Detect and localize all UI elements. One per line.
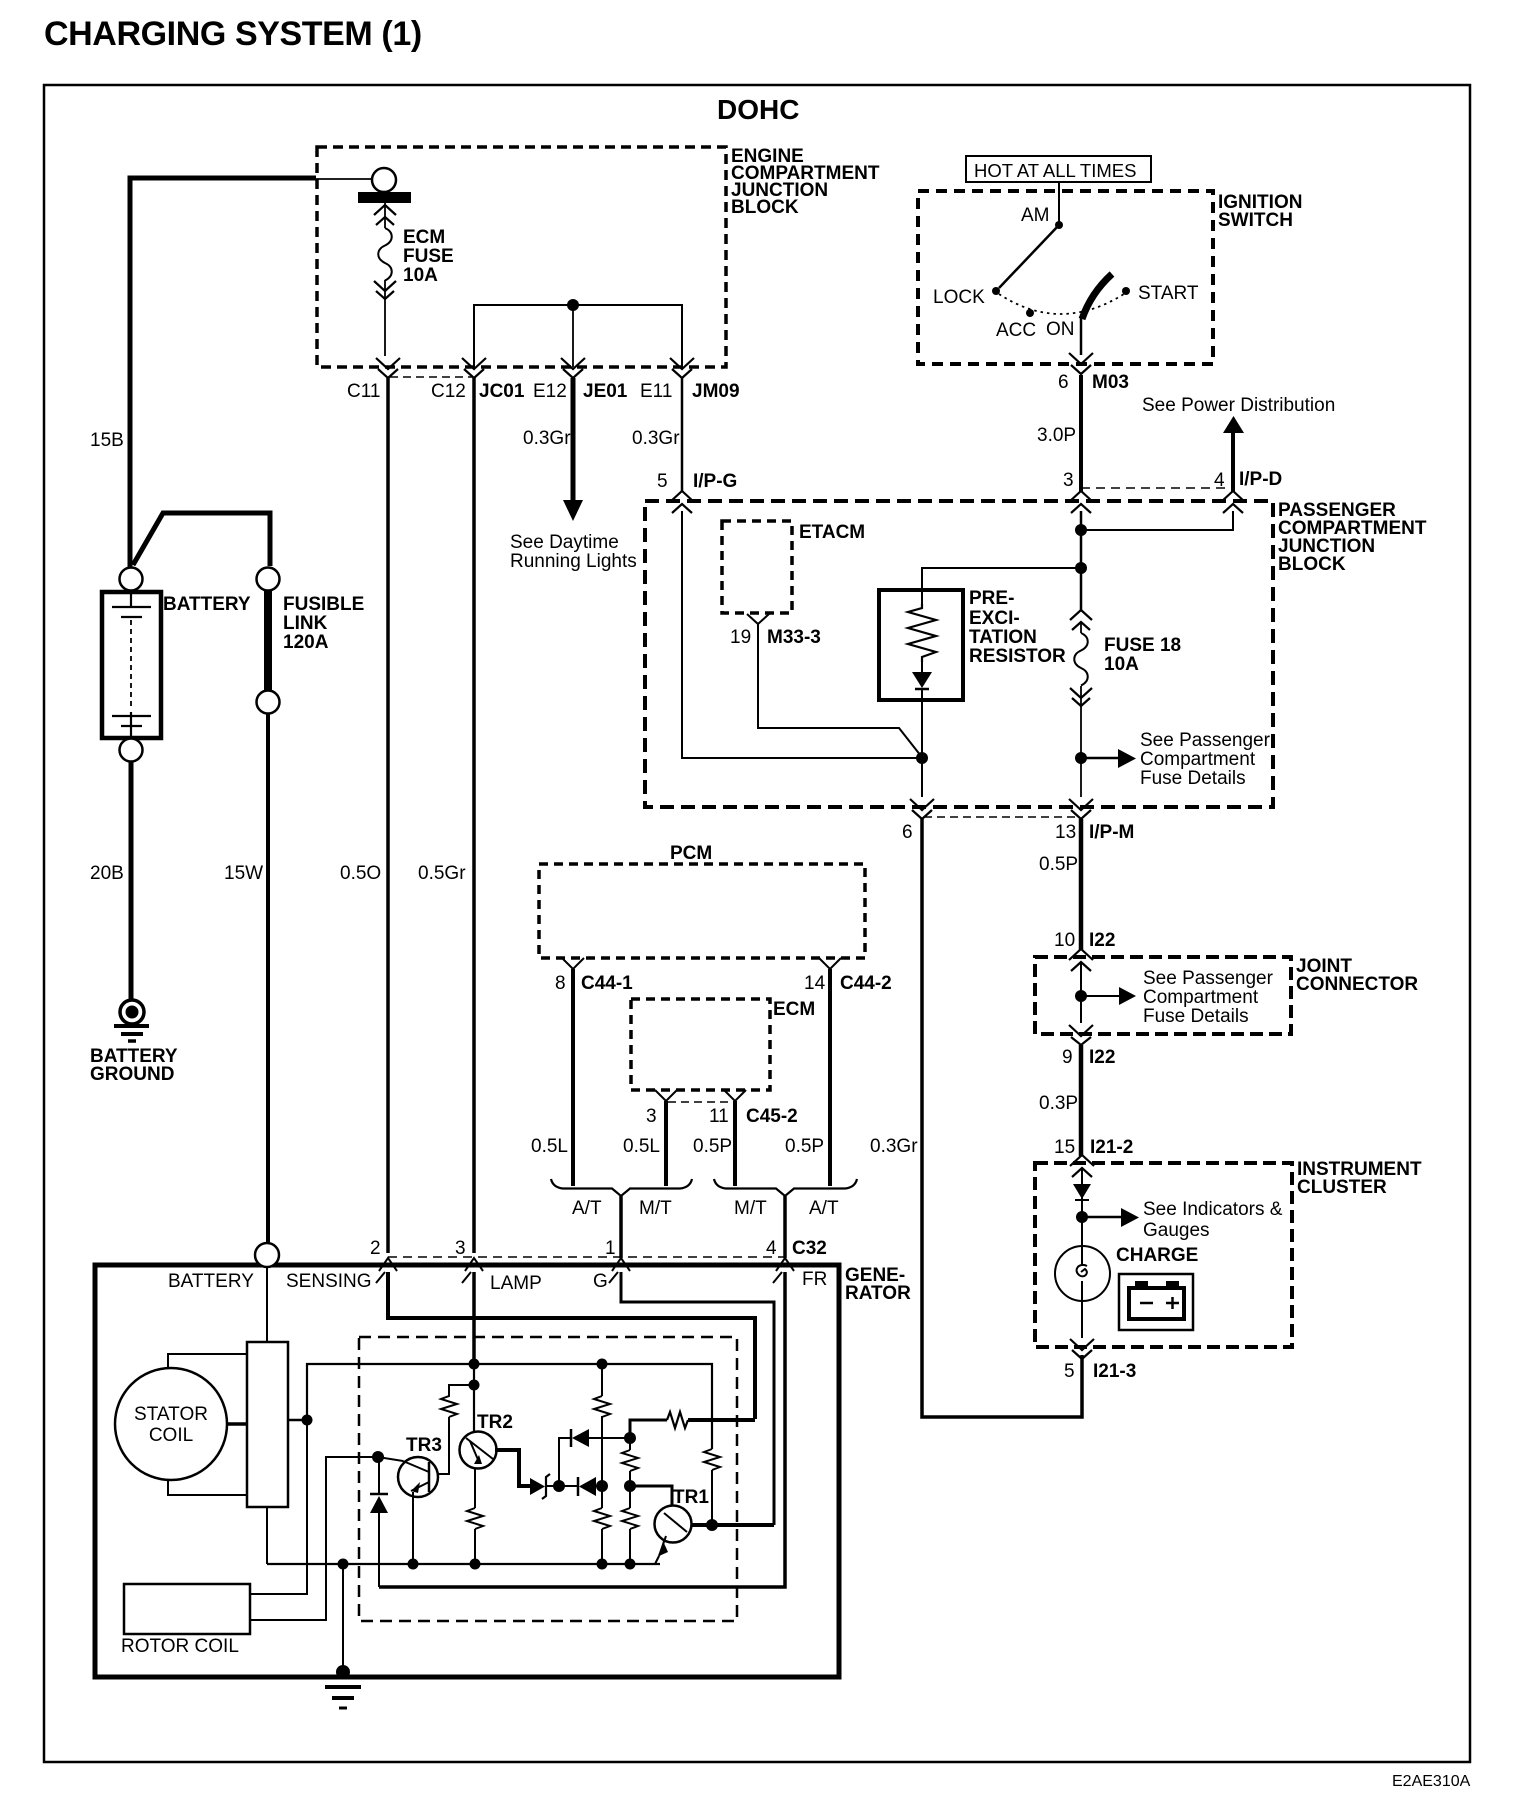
arrow see power distribution [1223,416,1244,433]
connector C12 (chevron down) [462,358,486,378]
svg-text:15B: 15B [90,430,124,451]
svg-text:0.3P: 0.3P [1039,1093,1078,1114]
key position arc (thick) [1082,274,1112,319]
wire rotor top feed [251,1420,307,1594]
resistor zigzag [908,604,936,662]
svg-text:0.5P: 0.5P [1039,854,1078,875]
label PRE-EXCI-TATION RESISTOR [969,588,1066,667]
connector 8 C44-1 (chevron) [562,958,584,969]
label GENE-RATOR [845,1265,911,1304]
zener diode [530,1478,545,1495]
rectifier block [247,1342,288,1507]
wire TR3 emitter [412,1492,414,1564]
junction node lamp/bus [469,1359,480,1370]
svg-text:E2AE310A: E2AE310A [1392,1773,1471,1790]
wire 0.5P (C45-2) [733,1101,737,1186]
switch wiper AM-LOCK [999,225,1059,288]
svg-text:I21-3: I21-3 [1093,1361,1136,1382]
wire FR route [379,1272,785,1587]
svg-text:AM: AM [1021,205,1050,226]
svg-text:0.3Gr: 0.3Gr [523,428,571,449]
svg-text:PRE-: PRE- [969,588,1014,609]
svg-text:FUSE 18: FUSE 18 [1104,635,1181,656]
battery B1 [102,592,161,738]
connector 10 I22 (chevron up) [1069,949,1093,971]
svg-text:DOHC: DOHC [717,94,799,125]
junction node [916,752,928,764]
label INSTRUMENT CLUSTER [1297,1159,1422,1198]
wire LAMP down [472,1272,476,1364]
svg-text:ETACM: ETACM [799,522,865,543]
svg-text:10A: 10A [403,265,438,286]
svg-text:ROTOR COIL: ROTOR COIL [121,1636,239,1657]
wire TR3 collector node [378,1457,403,1461]
connector pair dashed link C11-C12 [390,376,472,378]
node AM [1055,221,1063,229]
wire TR1 output [691,1523,774,1527]
svg-text:ACC: ACC [996,320,1036,341]
svg-text:FUSIBLE: FUSIBLE [283,594,364,615]
svg-text:I22: I22 [1089,930,1115,951]
junction node [1076,1211,1088,1223]
engine compartment junction block (dashed box) [317,147,726,367]
svg-text:I21-2: I21-2 [1090,1137,1133,1158]
svg-text:Gauges: Gauges [1143,1220,1210,1241]
ECM fuse terminal circle [372,168,396,192]
svg-text:See Passenger: See Passenger [1140,730,1271,751]
wire JE01 stub [572,305,574,367]
label See Daytime Running Lights [510,532,637,572]
svg-text:11: 11 [709,1106,729,1127]
generator battery terminal circle [255,1243,279,1267]
svg-text:COIL: COIL [149,1425,193,1446]
connector JM09 (chevron down) [670,358,694,378]
junction node [302,1415,313,1426]
svg-text:See Passenger: See Passenger [1143,968,1274,989]
fuse FUSE 18 10A [1070,610,1092,630]
svg-text:ECM: ECM [403,227,445,248]
svg-text:13: 13 [1055,822,1076,843]
connector 4 I/P-D (chevron up) [1221,491,1245,513]
svg-text:C45-2: C45-2 [746,1106,798,1127]
junction node [597,1559,608,1570]
svg-text:PCM: PCM [670,843,712,864]
svg-text:I/P-D: I/P-D [1239,469,1282,490]
connector 11 C45-2 (chevron) [724,1090,746,1101]
wire G merged [619,1196,623,1258]
svg-text:JM09: JM09 [692,381,740,402]
svg-text:SWITCH: SWITCH [1218,210,1293,231]
transistor TR3 [398,1457,438,1497]
svg-text:9: 9 [1062,1047,1073,1068]
wire FR merged [783,1196,787,1258]
wire to TR3 base [437,1417,449,1474]
connector 5 I21-3 (chevron down) [1070,1339,1094,1359]
wire 15W [266,713,270,1243]
svg-text:A/T: A/T [809,1198,839,1219]
junction dot [567,299,579,311]
node ACC [1026,309,1034,317]
wire inside joint connector [1080,962,1082,1023]
svg-text:C11: C11 [347,381,380,402]
svg-text:STATOR: STATOR [134,1404,208,1425]
svg-text:CHARGING SYSTEM (1): CHARGING SYSTEM (1) [44,15,422,53]
wire rectifier to ground bus [266,1507,268,1564]
svg-text:15W: 15W [224,863,263,884]
ground bus [267,1563,660,1565]
junction node [1075,752,1087,764]
svg-text:19: 19 [730,627,751,648]
svg-text:120A: 120A [283,632,329,653]
connector 14 C44-2 (chevron) [819,958,841,969]
svg-text:GROUND: GROUND [90,1064,174,1085]
dotted travel arc [999,294,1124,314]
svg-text:3: 3 [646,1106,657,1127]
svg-text:0.5P: 0.5P [785,1136,824,1157]
passenger compartment junction block (dashed box) [645,501,1273,807]
wire G route [621,1272,774,1525]
sensing resistor (horizontal) [630,1420,667,1438]
wire AM feed [1058,182,1060,224]
arrow see indicators and gauges [1082,1216,1121,1219]
fusible link bottom circle [257,691,280,714]
label PASSENGER COMPARTMENT JUNCTION BLOCK [1278,500,1427,575]
pre-excitation resistor box [879,590,963,700]
svg-text:3.0P: 3.0P [1037,425,1076,446]
svg-text:C44-2: C44-2 [840,973,892,994]
junction node bus/divider [597,1359,608,1370]
connector row dashed link C32 [388,1256,785,1258]
svg-text:FUSE: FUSE [403,246,454,267]
ECM box (dashed) [631,999,770,1090]
svg-text:Fuse Details: Fuse Details [1143,1006,1249,1027]
svg-text:0.5L: 0.5L [531,1136,568,1157]
svg-text:0.5O: 0.5O [340,863,381,884]
battery top terminal circle [120,568,143,591]
generator box [95,1265,839,1677]
diode (down) inside resistor box [912,672,932,688]
transistor TR2 [460,1432,497,1469]
fusible link F1 120A (thick bar) [264,590,272,690]
terminal labels [168,1269,827,1294]
connector 3 (chevron) [655,1090,677,1101]
svg-text:TR3: TR3 [406,1435,442,1456]
ignition switch box (dashed) [918,191,1213,364]
diode (down) in cluster [1073,1184,1091,1199]
junction node ground [338,1559,349,1570]
svg-text:0.5L: 0.5L [623,1136,660,1157]
svg-text:8: 8 [555,973,566,994]
wire ON to M03 [1080,317,1083,355]
svg-text:0.3Gr: 0.3Gr [632,428,680,449]
wire into cluster [1081,1168,1083,1246]
svg-text:LAMP: LAMP [490,1273,542,1294]
svg-text:CLUSTER: CLUSTER [1297,1177,1387,1198]
svg-text:See Daytime: See Daytime [510,532,619,553]
junction node [469,1380,480,1391]
svg-text:10A: 10A [1104,654,1139,675]
svg-text:I/P-G: I/P-G [693,471,737,492]
PCM box (dashed) [539,864,865,958]
connector 4 (chevron up) [773,1258,794,1283]
svg-text:ECM: ECM [773,999,815,1020]
wire 0.3P [1079,1045,1084,1156]
junction node [625,1559,636,1570]
arrow see daytime running lights [563,500,583,521]
transistor TR1 [655,1506,692,1543]
connector 1 (chevron up) [609,1258,630,1283]
connector 3 (chevron up) [1069,491,1093,513]
junction node [470,1559,481,1570]
labels A/T M/T [572,1198,839,1219]
svg-text:JC01: JC01 [479,381,525,402]
label JOINT CONNECTOR [1296,956,1418,995]
label ECM FUSE 10A [403,227,454,286]
svg-text:See Power Distribution: See Power Distribution [1142,395,1335,416]
junction node TR3/rotor [372,1451,384,1463]
svg-text:E11: E11 [640,381,672,402]
diode field discharge [370,1493,388,1496]
svg-text:Compartment: Compartment [1143,987,1259,1008]
divider chain x630 [629,1438,631,1564]
wire SENSING route [388,1272,755,1419]
svg-text:M/T: M/T [639,1198,672,1219]
wire battery to fusible link jog [133,513,270,566]
stator winding leads [168,1354,247,1368]
wire 0.5L (ECM 3) [664,1101,668,1186]
wire resistor to node [921,700,923,797]
svg-text:M/T: M/T [734,1198,767,1219]
wire 20B [129,762,134,1000]
svg-text:E12: E12 [533,381,567,402]
svg-text:C44-1: C44-1 [581,973,633,994]
svg-text:Compartment: Compartment [1140,749,1256,770]
battery pictogram [1119,1274,1193,1330]
wire 0.5Gr (C12 down to generator 3) [472,378,476,1253]
svg-text:1: 1 [605,1238,616,1259]
svg-text:I/P-M: I/P-M [1089,822,1134,843]
diode (left) upper [570,1429,573,1447]
wire TR1 base [630,1486,672,1506]
connector M03 (chevron down) [1069,353,1093,374]
wire battery terminal into rectifier [266,1267,268,1342]
connector C11 (chevron down) [376,358,400,378]
connector 19 M33-3 (chevron) [747,614,769,624]
fusible link top circle [257,568,280,591]
wire M03 main down [1080,511,1083,610]
svg-text:Running Lights: Running Lights [510,551,637,572]
lamp CHARGE indicator [1055,1246,1110,1301]
wire to ECM fuse terminal [316,178,372,180]
svg-text:M33-3: M33-3 [767,627,821,648]
svg-text:15: 15 [1054,1137,1075,1158]
ECM fuse holder bar [358,192,411,203]
feedback resistor x712 [704,1449,720,1470]
svg-text:10: 10 [1054,930,1075,951]
svg-text:HOT AT ALL TIMES: HOT AT ALL TIMES [974,160,1136,181]
svg-text:RATOR: RATOR [845,1283,911,1304]
stator coil circle [115,1368,227,1480]
junction node [624,1480,636,1492]
connector 6 (chevron down) [910,799,934,819]
wire I/P-D branch [1081,511,1233,530]
svg-text:FR: FR [802,1269,827,1290]
wire 0.5L (C44-1) [571,969,575,1186]
connector 2 (chevron up) [376,1258,397,1283]
label IGNITION SWITCH [1218,192,1302,231]
connector pair dashed link 3-11 [668,1101,733,1103]
label FUSE 18 10A [1104,635,1181,675]
connector 9 I22 (chevron down) [1069,1025,1093,1045]
wire 0.5O (C11 down to generator 2) [386,378,390,1253]
junction node [553,1480,565,1492]
divider chain x602 [601,1364,603,1564]
wire JM09 down to I/P-G [681,378,684,492]
svg-text:2: 2 [370,1238,381,1259]
junction node [1075,990,1087,1002]
svg-text:C12: C12 [431,381,466,402]
svg-text:Fuse Details: Fuse Details [1140,768,1246,789]
svg-text:I22: I22 [1089,1047,1115,1068]
wire rectifier output [288,1419,307,1422]
svg-text:4: 4 [1214,470,1225,491]
node LOCK [992,287,1000,295]
svg-text:20B: 20B [90,863,124,884]
wire M33-3 to node [758,624,921,756]
wire to pre-excitation resistor [922,568,1081,604]
bus inside junction block [474,305,682,367]
svg-text:0.5Gr: 0.5Gr [418,863,466,884]
svg-text:6: 6 [1058,372,1069,393]
svg-text:M03: M03 [1092,372,1129,393]
wire TR2 output to zener [495,1450,530,1486]
arrow see passenger compartment fuse details [1081,757,1118,760]
connector 3 (chevron up) [462,1258,483,1283]
svg-text:TR1: TR1 [673,1487,709,1508]
wire to case ground [342,1564,344,1671]
connector 13 I/P-M (chevron down) [1069,799,1093,819]
wire rectifier output to regulator bus [307,1364,712,1449]
wire 0.5P [1079,819,1084,950]
junction node [1075,524,1087,536]
voltage regulator box (dashed) [359,1337,737,1621]
wire lamp branch [473,1364,475,1385]
svg-text:START: START [1138,283,1199,304]
svg-text:SENSING: SENSING [286,1271,372,1292]
wire node up [559,1438,571,1486]
svg-text:RESISTOR: RESISTOR [969,646,1066,667]
svg-text:C32: C32 [792,1238,827,1259]
connector 15 I21-2 (chevron up) [1070,1155,1094,1177]
label ENGINE COMPARTMENT JUNCTION BLOCK [731,146,880,218]
svg-text:4: 4 [766,1238,777,1259]
wire JE01 0.3Gr down [571,378,576,500]
connector labels row [347,381,740,402]
svg-text:CHARGE: CHARGE [1116,1245,1198,1266]
junction node [596,1480,608,1492]
wire 0.5P (C44-2) [828,969,832,1186]
ETACM box (dashed) [722,521,792,613]
svg-text:JE01: JE01 [583,381,628,402]
wire 15B battery feed (thick) [130,178,316,567]
connector pair dashed link 6-13 [924,816,1079,818]
junction node [706,1519,718,1531]
connector row dashed link 3 - 4 [1081,487,1233,489]
svg-text:BATTERY: BATTERY [163,594,251,615]
battery ground symbol [120,1000,144,1024]
svg-text:TATION: TATION [969,627,1037,648]
fuse ECM FUSE 10A [374,205,396,225]
svg-text:LOCK: LOCK [933,287,985,308]
svg-text:EXCI-: EXCI- [969,608,1020,629]
instrument cluster box (dashed) [1035,1163,1292,1347]
rotor coil box [124,1584,250,1634]
svg-text:5: 5 [657,471,668,492]
HOT AT ALL TIMES box [966,156,1151,182]
svg-text:ON: ON [1046,319,1075,340]
arrow see passenger compartment fuse details [1081,995,1119,997]
wire rotor bottom return [250,1457,378,1620]
svg-text:6: 6 [902,822,913,843]
node START [1122,287,1130,295]
svg-text:See Indicators &: See Indicators & [1143,1199,1283,1220]
connector JE01 (chevron down) [561,358,585,378]
junction node [624,1432,636,1444]
wire 0.3Gr long route (6 to instrument cluster 5) [922,819,1082,1417]
junction node [1075,562,1087,574]
merge bracket M/T-A/T (right) [714,1179,857,1196]
svg-text:G: G [593,1271,608,1292]
svg-text:BLOCK: BLOCK [731,197,799,218]
svg-text:A/T: A/T [572,1198,602,1219]
svg-text:0.5P: 0.5P [693,1136,732,1157]
joint connector box (dashed) [1035,957,1291,1034]
svg-text:5: 5 [1064,1361,1075,1382]
merge bracket A/T-M/T (left) [551,1179,692,1196]
ground [336,1665,350,1679]
svg-text:TR2: TR2 [477,1412,513,1433]
connector 5 I/P-G (chevron up) [670,491,694,513]
labels 2 3 1 4 C32 [370,1238,827,1259]
labels wire gauges [531,1136,824,1157]
resistor R-TR3base [441,1385,474,1417]
svg-text:LINK: LINK [283,613,328,634]
wire I/P-G down and across [682,511,920,758]
svg-text:0.3Gr: 0.3Gr [870,1136,918,1157]
wire 3.0P [1079,375,1083,492]
svg-text:BATTERY: BATTERY [168,1271,254,1292]
svg-text:14: 14 [804,973,826,994]
wire TR1 emitter to bus [655,1556,659,1564]
svg-text:CONNECTOR: CONNECTOR [1296,974,1418,995]
svg-text:3: 3 [455,1238,466,1259]
svg-text:3: 3 [1063,470,1074,491]
svg-text:BLOCK: BLOCK [1278,554,1346,575]
junction node [408,1559,419,1570]
diode (left) lower [559,1485,578,1487]
battery bottom terminal circle [120,739,143,762]
wire TR2 emitter + resistor [474,1468,476,1564]
